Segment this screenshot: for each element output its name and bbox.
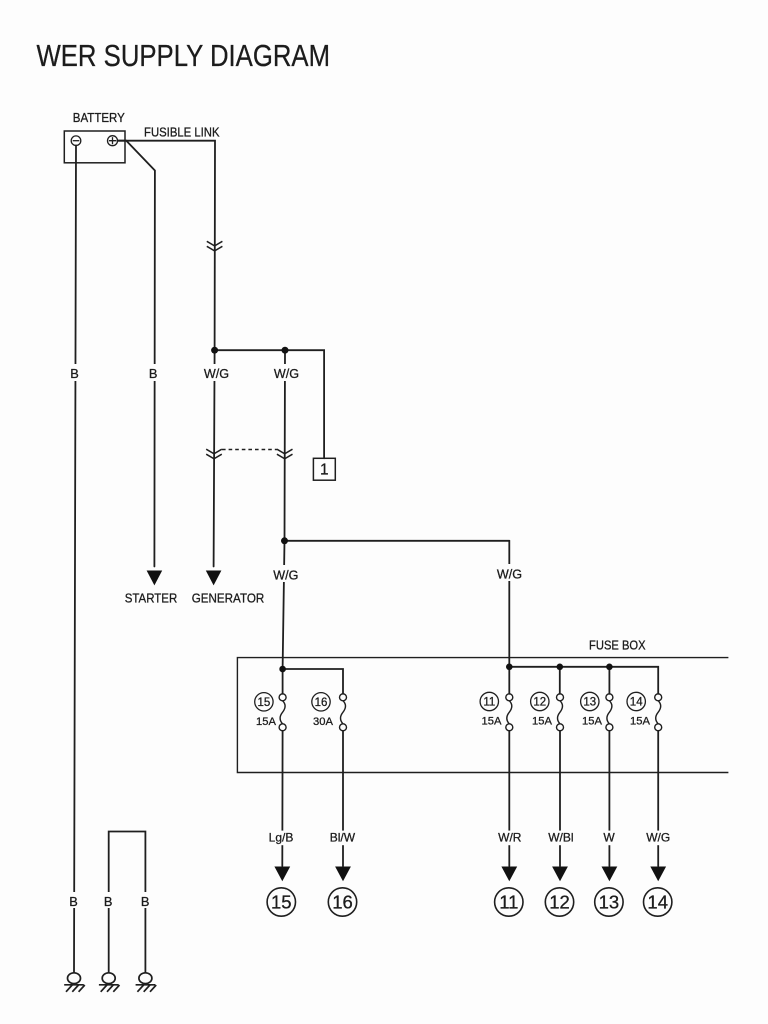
fuse 14 element: [655, 694, 662, 731]
node: fuse box dot 13: [606, 664, 613, 671]
svg-text:BATTERY: BATTERY: [73, 111, 126, 125]
fuse 15 designator circle: [255, 693, 273, 711]
arrow to circuit 16: [335, 867, 351, 882]
fuse 16 designator circle: [312, 693, 330, 711]
svg-text:STARTER: STARTER: [125, 591, 178, 605]
label W/G on branch wire: [272, 364, 302, 381]
fuse 11 element: [506, 694, 513, 731]
wire: battery negative to ground (B): [74, 145, 76, 971]
svg-text:W/G: W/G: [497, 568, 522, 582]
label B on battery negative wire: [69, 364, 81, 381]
svg-text:W/R: W/R: [498, 830, 522, 844]
svg-text:Lg/B: Lg/B: [269, 830, 294, 844]
wire: fuse 12 output to terminal 12: [559, 731, 561, 866]
svg-text:15A: 15A: [482, 716, 502, 728]
svg-text:14: 14: [647, 892, 668, 913]
terminal circle 16: [328, 888, 356, 916]
svg-text:FUSE BOX: FUSE BOX: [589, 638, 646, 652]
label B on starter wire: [148, 364, 160, 381]
svg-text:B: B: [149, 366, 158, 381]
arrow to circuit 14: [650, 867, 666, 882]
label Lg/B wire color: [266, 830, 296, 845]
fuse 15 element: [279, 694, 286, 731]
svg-text:W: W: [603, 830, 615, 844]
svg-text:1: 1: [320, 462, 329, 479]
svg-text:14: 14: [630, 697, 643, 709]
svg-text:16: 16: [315, 697, 328, 709]
wire: fuse box left bus: [283, 669, 343, 694]
wire: W/G branch down to main junction: [284, 350, 287, 541]
node: fuse box dot 11: [506, 664, 513, 671]
fuse 11 designator circle: [480, 692, 498, 710]
wire: fuse box right bus: [509, 667, 658, 694]
wire: fuse 13 output to terminal 13: [608, 731, 610, 866]
fuse 14 designator circle: [627, 692, 645, 710]
label B on ground wire right: [140, 892, 152, 909]
svg-text:B: B: [69, 894, 78, 909]
wire: fuse 16 output to terminal 16: [342, 731, 344, 866]
svg-text:15A: 15A: [582, 716, 602, 728]
wire: fuse box feed down to bus dot: [508, 541, 510, 667]
svg-text:15: 15: [271, 892, 292, 913]
battery negative terminal: [71, 136, 81, 146]
label W wire color: [602, 830, 617, 845]
svg-text:W/G: W/G: [274, 367, 299, 381]
terminal circle 14: [644, 888, 672, 916]
label W/G on fuse box feed: [494, 564, 525, 582]
ground symbol right: [136, 973, 157, 992]
wire: fusible link to generator: [214, 350, 215, 566]
arrow to circuit 12: [552, 867, 568, 882]
fuse 13 designator circle: [581, 692, 599, 710]
fuse 16 element: [340, 694, 347, 731]
arrow to starter: [147, 571, 163, 586]
label B on ground wire middle: [103, 892, 115, 909]
svg-text:11: 11: [483, 697, 495, 709]
svg-text:13: 13: [583, 697, 596, 709]
connector chevron on fusible link wire: [207, 241, 223, 251]
svg-text:FUSIBLE LINK: FUSIBLE LINK: [144, 126, 220, 140]
fuse box outline: [237, 658, 728, 773]
connector chevron on right W/G wire: [277, 449, 293, 459]
node: junction dot W/G branch: [282, 347, 289, 354]
svg-text:13: 13: [599, 892, 620, 913]
terminal circle 12: [545, 888, 573, 916]
label W/G on generator wire: [201, 364, 231, 381]
battery positive terminal: [108, 136, 118, 146]
svg-text:B: B: [141, 894, 150, 909]
svg-text:15A: 15A: [256, 716, 276, 728]
wire: fuse 15 drop: [282, 669, 284, 694]
wire: bus at node junction y350 to connector 1: [215, 350, 325, 458]
label W/G above fuse 15 feed: [270, 565, 301, 583]
connector chevron on left W/G wire: [206, 449, 222, 459]
node: junction dot at fusible link split: [211, 347, 218, 354]
label Bl/W wire color: [327, 830, 358, 845]
node: fuse box dot 12: [557, 664, 564, 671]
svg-text:GENERATOR: GENERATOR: [192, 591, 265, 605]
wire: fusible link from battery positive: [118, 141, 216, 351]
arrow to circuit 11: [501, 867, 517, 882]
battery box: [64, 131, 125, 163]
node: main junction dot: [281, 537, 288, 544]
fuse 12 designator circle: [531, 692, 549, 710]
svg-text:B: B: [70, 366, 79, 381]
dashed tie line between chevrons: [222, 449, 277, 451]
wire: fuse 11 output to terminal 11: [508, 731, 510, 866]
connector box 1: [313, 458, 335, 480]
wire: fuse 14 output to terminal 14: [657, 731, 659, 866]
svg-text:Bl/W: Bl/W: [330, 830, 356, 844]
svg-text:12: 12: [533, 697, 546, 709]
ground symbol middle: [99, 973, 120, 992]
wire: fuse 12 drop: [559, 667, 561, 694]
svg-text:B: B: [104, 894, 113, 909]
svg-text:W/G: W/G: [204, 367, 229, 381]
svg-text:11: 11: [499, 892, 518, 913]
wire: battery positive diagonal to starter: [118, 141, 155, 567]
label B on ground wire left: [68, 892, 80, 909]
terminal circle 15: [267, 888, 295, 916]
svg-text:30A: 30A: [313, 716, 333, 728]
wire: fuse 15 output to terminal 15: [281, 731, 283, 866]
node: fuse box dot 15: [279, 666, 286, 673]
wire: fuse 13 drop: [608, 667, 610, 694]
wire: bus main junction to fuse box feed: [285, 540, 510, 542]
svg-text:15A: 15A: [630, 716, 650, 728]
svg-text:16: 16: [332, 892, 353, 913]
svg-text:W/G: W/G: [273, 569, 298, 583]
wire: fuse 11 drop: [508, 667, 510, 694]
svg-text:12: 12: [549, 892, 570, 913]
ground symbol left: [64, 973, 85, 992]
terminal circle 11: [495, 888, 523, 916]
arrow to generator: [206, 571, 222, 586]
svg-text:W/G: W/G: [646, 830, 670, 844]
arrow to circuit 13: [602, 867, 618, 882]
label W/G wire color: [643, 830, 673, 845]
label W/R wire color: [495, 830, 524, 845]
wire: ground pair bracket: [109, 832, 146, 972]
arrow to circuit 15: [274, 867, 290, 882]
svg-text:15A: 15A: [532, 716, 552, 728]
svg-text:WER SUPPLY DIAGRAM: WER SUPPLY DIAGRAM: [37, 39, 331, 73]
fuse 12 element: [557, 694, 564, 731]
fuse 13 element: [606, 694, 613, 731]
svg-text:W/Bl: W/Bl: [548, 830, 573, 844]
label W/Bl wire color: [545, 830, 576, 845]
svg-text:15: 15: [258, 697, 271, 709]
wire: main junction down into fuse box to fuse 15: [283, 541, 285, 669]
terminal circle 13: [595, 888, 623, 916]
